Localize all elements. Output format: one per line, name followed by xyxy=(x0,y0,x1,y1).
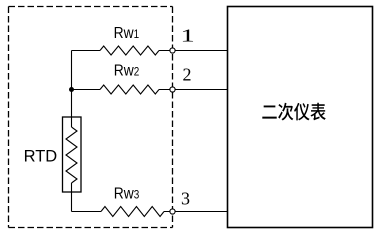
svg-text:3: 3 xyxy=(181,189,190,209)
svg-text:1: 1 xyxy=(180,27,194,46)
svg-text:RTD: RTD xyxy=(24,148,58,166)
svg-text:2: 2 xyxy=(183,65,192,85)
